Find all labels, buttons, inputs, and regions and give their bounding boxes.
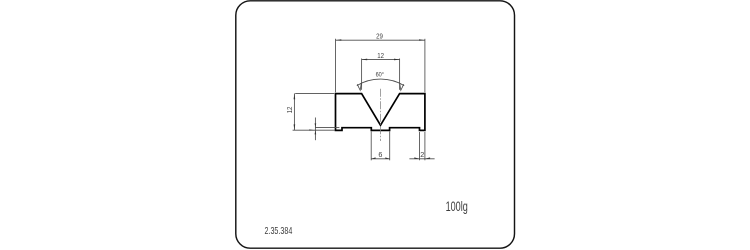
dimension 12 (left vertical): extension lines xyxy=(295,92,334,94)
svg-text:12: 12 xyxy=(377,51,384,60)
svg-text:2: 2 xyxy=(420,150,424,159)
small step dimension near left foot: extension line upper xyxy=(315,127,339,129)
svg-text:12: 12 xyxy=(285,107,294,114)
dimension 29: extension lines xyxy=(335,39,337,93)
centerline of V xyxy=(380,89,382,141)
svg-text:6: 6 xyxy=(378,150,382,159)
small step dimension: vertical line xyxy=(314,118,316,141)
angle 60 arc xyxy=(357,79,404,86)
angle 60 arc left arrowhead xyxy=(357,83,361,90)
dimension 2 (bottom right): extension lines xyxy=(419,132,421,160)
small step dimension: arrow down xyxy=(315,123,317,127)
svg-text:100lg: 100lg xyxy=(446,199,468,215)
dimension 2: arrowheads outside pointing inward xyxy=(414,157,419,158)
dimension 12 (top): extension lines xyxy=(361,59,363,90)
dimension 6: dim line xyxy=(371,158,390,160)
small step dimension: arrow up xyxy=(315,130,317,134)
dimension 6: arrowheads xyxy=(371,157,375,158)
dimension 12 (left vertical): arrowheads xyxy=(294,93,296,99)
dimension 6 (bottom center): extension lines xyxy=(370,132,372,161)
dimension 29: dim line xyxy=(336,39,425,41)
die block outline xyxy=(336,94,425,131)
dimension 12 (top): dim line xyxy=(362,59,400,61)
angle 60 arc right arrowhead xyxy=(400,83,404,90)
dimension 29: arrowheads xyxy=(336,39,342,41)
small step dimension: horizontal arrow on lower ext line xyxy=(309,129,315,130)
dimension 12 (left vertical): dim line xyxy=(293,93,295,130)
frame border xyxy=(236,1,515,248)
svg-text:2.35.384: 2.35.384 xyxy=(265,226,293,237)
dimension 12 (top): arrowheads xyxy=(362,59,368,61)
svg-text:29: 29 xyxy=(376,32,383,41)
svg-text:60°: 60° xyxy=(376,70,385,78)
dimension 2: dim line extends past ext lines xyxy=(409,158,434,160)
